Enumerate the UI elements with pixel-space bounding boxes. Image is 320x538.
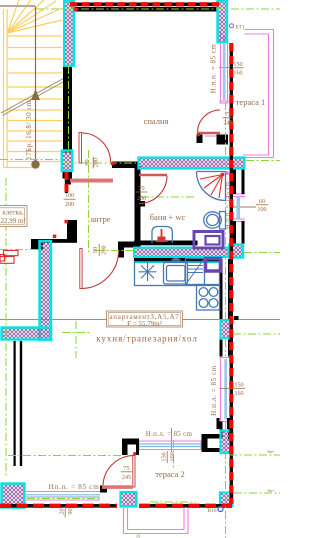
svg-text:спалня: спалня xyxy=(144,116,169,126)
svg-text:90: 90 xyxy=(92,247,99,253)
svg-text:БТ1: БТ1 xyxy=(235,25,244,31)
svg-text:Н.п.п. = 85 cm: Н.п.п. = 85 cm xyxy=(210,44,218,94)
svg-text:200: 200 xyxy=(101,245,108,254)
svg-text:10: 10 xyxy=(136,534,141,538)
svg-text:160: 160 xyxy=(233,70,242,77)
svg-text:17Бр. 16,8/ 30 cm: 17Бр. 16,8/ 30 cm xyxy=(25,100,33,160)
svg-text:В18: В18 xyxy=(207,508,216,514)
svg-text:160: 160 xyxy=(234,390,243,397)
svg-text:20: 20 xyxy=(59,508,66,514)
svg-text:Нп.п. = 85 cm: Нп.п. = 85 cm xyxy=(49,483,100,491)
svg-text:150: 150 xyxy=(161,452,168,461)
svg-text:100: 100 xyxy=(257,206,266,213)
svg-text:90: 90 xyxy=(67,508,74,514)
svg-text:70: 70 xyxy=(138,185,144,192)
svg-text:200: 200 xyxy=(137,195,146,202)
svg-text:баня + wc: баня + wc xyxy=(150,212,186,222)
svg-text:Sк=: Sк= xyxy=(267,449,275,454)
svg-text:Н.п.л. = 85 cm: Н.п.л. = 85 cm xyxy=(146,430,193,438)
svg-text:кухня/трапезария/хол: кухня/трапезария/хол xyxy=(96,334,198,344)
svg-text:160: 160 xyxy=(169,452,176,461)
svg-text:Н.п.л. = 85 cm: Н.п.л. = 85 cm xyxy=(210,365,218,416)
svg-text:Sк=: Sк= xyxy=(267,488,275,493)
svg-text:245: 245 xyxy=(223,120,232,127)
svg-text:150: 150 xyxy=(233,61,242,68)
svg-text:F = 55.79m²: F = 55.79m² xyxy=(127,320,162,328)
svg-text:Н.п.п. = 145 cm: Н.п.п. = 145 cm xyxy=(225,180,232,228)
svg-text:150: 150 xyxy=(234,382,243,389)
svg-text:100: 100 xyxy=(65,192,74,199)
svg-text:тераса 2: тераса 2 xyxy=(155,469,185,479)
svg-text:75: 75 xyxy=(225,111,231,118)
svg-text:245: 245 xyxy=(122,474,131,481)
svg-text:200: 200 xyxy=(65,201,74,208)
svg-text:антре: антре xyxy=(90,214,110,224)
svg-text:клетка,: клетка, xyxy=(2,209,23,217)
svg-text:75: 75 xyxy=(123,465,129,472)
svg-text:22.99 m²: 22.99 m² xyxy=(0,217,25,225)
svg-text:60: 60 xyxy=(259,198,265,205)
svg-text:тераса 1: тераса 1 xyxy=(236,97,266,107)
svg-text:80: 80 xyxy=(84,159,91,165)
